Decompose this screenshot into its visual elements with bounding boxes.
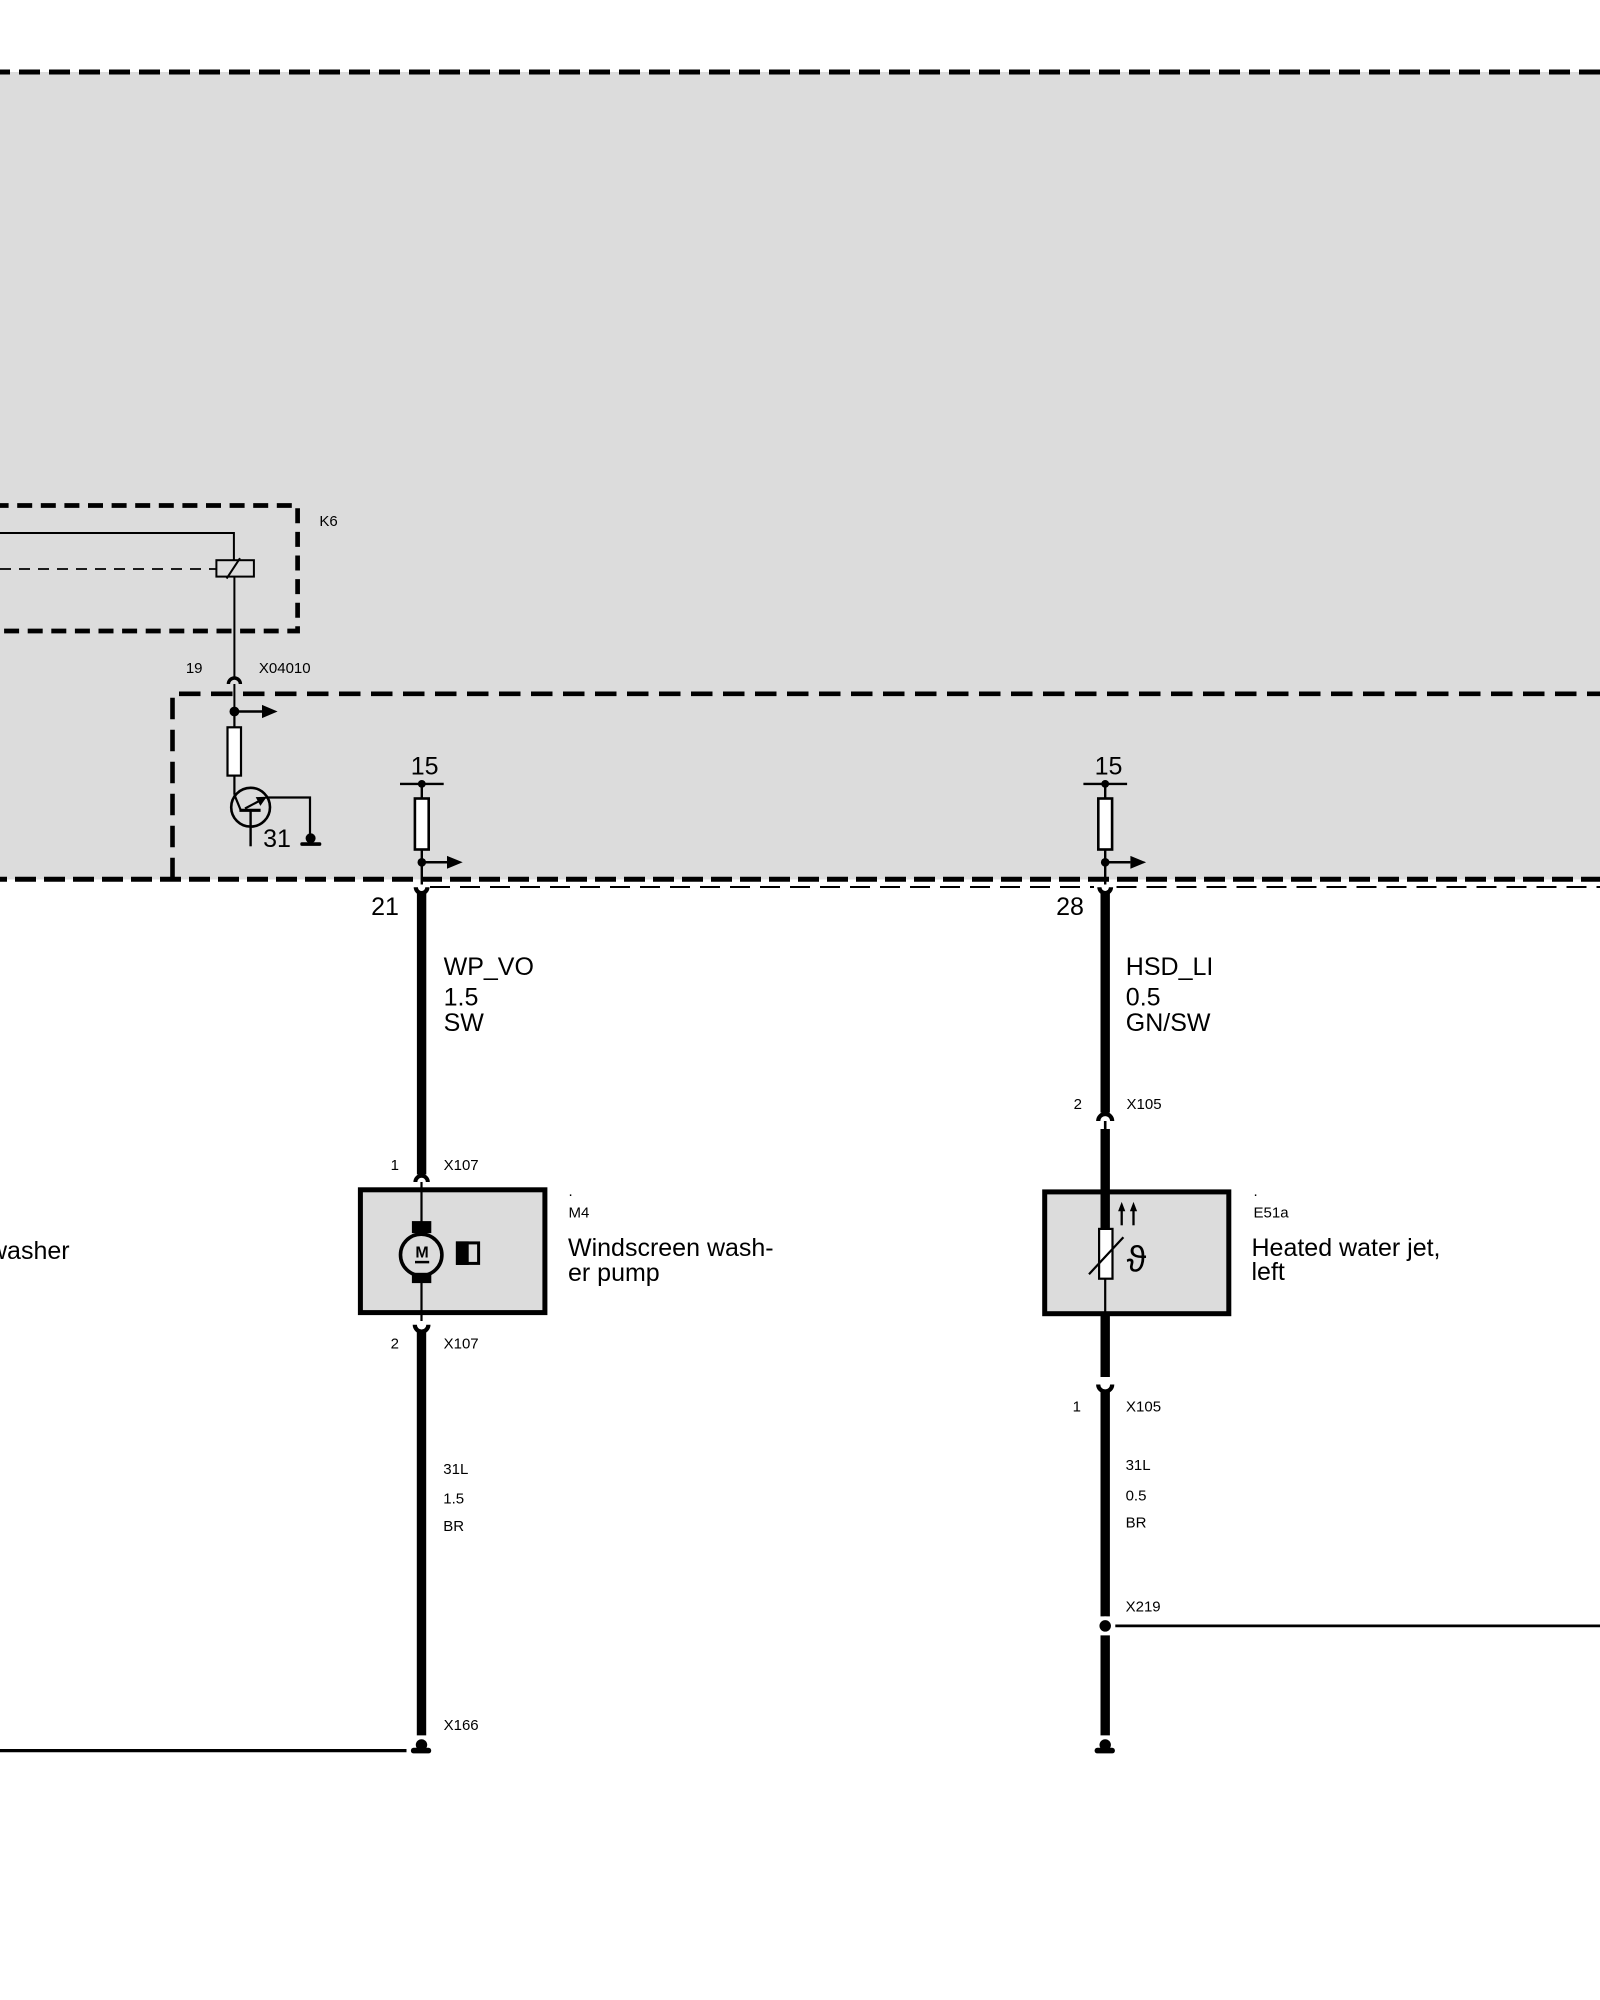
svg-text:SW: SW: [444, 1009, 485, 1037]
svg-text:WP_VO: WP_VO: [444, 953, 534, 981]
svg-text:BR: BR: [1126, 1515, 1147, 1532]
svg-text:X107: X107: [444, 1336, 479, 1353]
connector socket at module pin 21: [416, 887, 428, 893]
svg-text:left: left: [1252, 1258, 1285, 1286]
wire resistor to transistor base: [233, 776, 235, 795]
ground bus wire: [0, 1749, 407, 1752]
node junction dot (left): [418, 858, 427, 867]
svg-text:2: 2: [391, 1336, 399, 1353]
ground (internal): [306, 833, 316, 843]
relay K6 dashed box: [0, 506, 298, 632]
wire box bottom to X105 pin1 thick: [1100, 1314, 1109, 1378]
wire fuse to junction (left): [421, 850, 423, 863]
terminal 15 feed bar (right): [1083, 783, 1127, 785]
motor terminal block bottom: [412, 1273, 431, 1283]
svg-text:19: 19: [186, 660, 203, 677]
svg-text:ϑ: ϑ: [1127, 1239, 1147, 1280]
node X219 junction: [1096, 1616, 1115, 1635]
pump symbol: [456, 1241, 469, 1265]
svg-text:.: .: [569, 1183, 573, 1200]
wire into module: [233, 684, 235, 712]
harness boundary thin dashed line: [430, 886, 1094, 888]
wire inside box thick: [1100, 1192, 1109, 1229]
wire collector to ground: [266, 798, 311, 834]
svg-text:15: 15: [1095, 753, 1123, 781]
node dot on 15 bar (left): [418, 780, 426, 788]
transistor emitter: [249, 810, 251, 846]
wire relay contact feed (solid): [0, 533, 234, 560]
fuse (right column): [1098, 799, 1112, 850]
wire WP_VO thick (21 to pump): [417, 892, 426, 1175]
svg-text:X107: X107: [444, 1157, 479, 1174]
module bottom boundary dashed line: [0, 877, 1600, 882]
svg-text:1.5: 1.5: [443, 1491, 464, 1508]
svg-text:GN/SW: GN/SW: [1126, 1009, 1211, 1037]
wire branch arrow (left): [422, 861, 447, 864]
svg-text:washer: washer: [0, 1237, 70, 1265]
wire X219 branch to right: [1115, 1625, 1600, 1628]
svg-text:31: 31: [263, 825, 291, 853]
svg-text:X105: X105: [1126, 1398, 1161, 1415]
svg-text:1.5: 1.5: [444, 983, 479, 1011]
svg-text:0.5: 0.5: [1126, 1488, 1147, 1505]
svg-text:1: 1: [391, 1157, 399, 1174]
motor symbol M: [401, 1234, 442, 1275]
svg-text:31L: 31L: [443, 1461, 468, 1478]
wire X105 to jet box thick: [1100, 1129, 1109, 1192]
transistor collector with arrow: [245, 800, 261, 809]
wire 31L thick (X105 to X219): [1100, 1390, 1109, 1616]
heat arrow right: [1132, 1210, 1134, 1226]
wire 31L thick (pump to ground): [417, 1331, 426, 1736]
connector socket at module pin 28: [1099, 887, 1111, 893]
connector X107 pin 1 arc: [415, 1176, 427, 1182]
node junction dot at pin19 branch: [230, 707, 240, 717]
ECU module shaded area: [0, 72, 1600, 880]
wire branch arrow to other sheet: [234, 710, 262, 713]
svg-text:1: 1: [1073, 1398, 1081, 1415]
svg-text:31L: 31L: [1126, 1457, 1151, 1474]
connector X04010 pin 19 arc: [228, 678, 240, 684]
svg-text:K6: K6: [319, 513, 337, 530]
svg-text:M4: M4: [569, 1205, 590, 1222]
ground X166: [416, 1739, 427, 1750]
wire 15 to fuse (right): [1104, 784, 1106, 799]
svg-text:HSD_LI: HSD_LI: [1126, 953, 1214, 981]
svg-text:2: 2: [1074, 1096, 1082, 1113]
wire X219 to ground thick: [1100, 1635, 1109, 1735]
transistor Q (driver) circle: [231, 788, 270, 827]
transistor base bar: [239, 809, 260, 812]
inner module dashed boundary: [173, 694, 1600, 880]
svg-text:0.5: 0.5: [1126, 983, 1161, 1011]
heat arrow left: [1121, 1210, 1123, 1226]
svg-text:X166: X166: [444, 1717, 479, 1734]
wire into pump box: [420, 1182, 422, 1321]
relay coil diagonal: [227, 558, 240, 578]
wire relay coil control (dashed): [0, 568, 216, 570]
connector X105 pin 2 arc: [1098, 1114, 1112, 1121]
connector X107 pin 2 arc: [415, 1325, 429, 1332]
terminal 15 feed bar (left): [400, 783, 444, 785]
wire branch arrow (right): [1105, 861, 1130, 864]
svg-text:15: 15: [411, 753, 439, 781]
svg-text:er pump: er pump: [568, 1259, 660, 1287]
svg-text:28: 28: [1056, 893, 1084, 921]
node junction dot (right): [1101, 858, 1110, 867]
wire junction to module edge (right): [1104, 862, 1106, 884]
wire fuse to junction (right): [1104, 850, 1106, 863]
wire 15 to fuse (left): [421, 784, 423, 799]
svg-text:X105: X105: [1127, 1096, 1162, 1113]
svg-text:M: M: [415, 1245, 428, 1262]
svg-text:X219: X219: [1126, 1599, 1161, 1616]
component box E51a heated water jet: [1045, 1192, 1229, 1314]
heater resistor diagonal: [1089, 1237, 1123, 1274]
motor terminal block top: [412, 1221, 431, 1233]
ground (right column): [1100, 1739, 1111, 1750]
fuse (left column): [415, 799, 429, 850]
connector X105 pin 1 arc: [1098, 1385, 1112, 1392]
resistor (internal): [233, 712, 235, 728]
heater resistor E51a: [1099, 1229, 1112, 1279]
svg-text:E51a: E51a: [1254, 1205, 1290, 1222]
wire inside box: [420, 1192, 422, 1313]
module top boundary dashed line: [0, 70, 1600, 75]
svg-text:BR: BR: [443, 1518, 464, 1535]
component box M4 windscreen washer pump: [360, 1190, 545, 1313]
wire resistor to box bottom: [1104, 1279, 1106, 1314]
wire junction to module edge (left): [421, 862, 423, 884]
node dot on 15 bar (right): [1101, 780, 1109, 788]
relay coil K6: [216, 560, 254, 576]
svg-text:.: .: [1254, 1183, 1258, 1200]
wire HSD_LI thick (28 to X105): [1100, 892, 1109, 1113]
svg-text:21: 21: [371, 893, 399, 921]
svg-text:X04010: X04010: [259, 660, 311, 677]
wire relay output down: [233, 577, 235, 677]
